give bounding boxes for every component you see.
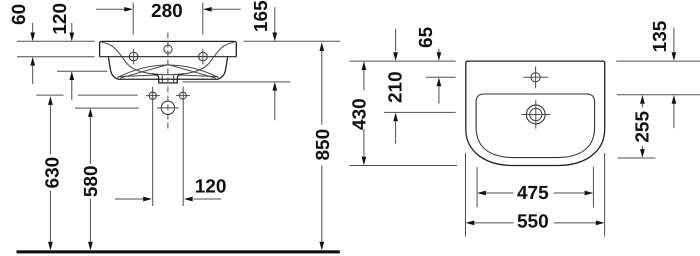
svg-text:165: 165 — [251, 0, 272, 32]
centerline dashed — [167, 33, 169, 131]
svg-text:210: 210 — [386, 71, 407, 103]
svg-text:120: 120 — [50, 3, 71, 35]
plan inner bowl outline — [476, 94, 594, 158]
washbasin body outline — [108, 57, 227, 80]
svg-text:135: 135 — [650, 20, 671, 52]
extension line rim-top right (y=41.3) — [244, 40, 341, 42]
left fixing hole — [149, 92, 156, 99]
dimension 475 (inner bowl width) — [477, 167, 593, 207]
dimension 135 (back edge to inner bowl) — [672, 28, 677, 129]
plan extension line inner-top right (y=94.8) — [617, 94, 700, 96]
svg-text:630: 630 — [42, 157, 63, 189]
bowl far-rim hill curve — [117, 65, 218, 78]
bowl floor line right — [177, 75, 218, 77]
svg-text:430: 430 — [349, 98, 370, 130]
dimension 210 (back edge to drain) — [393, 29, 398, 144]
plan extension line top-left (y=61.1) — [350, 60, 456, 62]
dimension 255 (inner bowl depth) — [640, 95, 645, 158]
extension line siphon level (y=108.1) — [75, 107, 139, 109]
dimension 60 (rim band height) — [30, 23, 35, 84]
plan drain — [526, 105, 545, 124]
svg-text:550: 550 — [517, 211, 549, 232]
dimension 580 (floor to siphon) — [88, 108, 93, 250]
plan tap hole — [531, 73, 540, 82]
siphon hole — [161, 101, 174, 114]
svg-text:580: 580 — [81, 165, 102, 197]
plan extension line bottom (y=165.5) — [350, 165, 458, 167]
center tap hole — [164, 45, 172, 53]
dimension 850 (floor to rim) — [319, 42, 324, 250]
svg-text:280: 280 — [151, 1, 183, 22]
drain stub inner walls — [162, 75, 173, 83]
bowl slope line left — [120, 65, 168, 79]
dimension 280 (tap hole distance) — [96, 3, 241, 35]
plan extension line drain level (y=112.4) — [384, 111, 456, 113]
extension line basin-bottom right (y=81.9) — [182, 81, 290, 83]
plan extension line top-right (y=61.1) — [616, 60, 700, 62]
washbasin deck front edge — [100, 56, 237, 58]
svg-text:120: 120 — [195, 176, 227, 197]
plan extension line tap level (y=77.3) — [426, 76, 456, 78]
right tap hole — [199, 52, 208, 61]
svg-text:475: 475 — [517, 183, 549, 204]
extension line deck level y=71.3 — [57, 70, 107, 72]
svg-text:65: 65 — [416, 26, 437, 48]
inner bowl rim curve — [102, 43, 234, 75]
extension line rim-bottom left (y=56.7) — [17, 56, 95, 58]
right fixing hole — [179, 92, 186, 99]
washbasin rim outline — [100, 41, 237, 56]
dimension 65 (back edge to tap) — [437, 49, 442, 104]
dimension 120 vertical (rim to deck) — [69, 23, 74, 100]
dimension 430 (plan depth) — [362, 61, 367, 165]
left tap hole — [129, 52, 138, 61]
extension line rim-top left (y=41.3) — [17, 40, 95, 42]
floor line — [17, 250, 340, 253]
dimension 120 horizontal (fixing hole spacing) — [115, 87, 221, 206]
plan outer outline — [466, 61, 605, 165]
dimension 630 (floor to fixing holes) — [48, 96, 53, 250]
svg-text:255: 255 — [632, 111, 653, 143]
bowl floor line left — [118, 75, 159, 77]
dimension 550 (plan width) — [466, 153, 605, 237]
dimension 165 (rim to basin bottom) — [272, 7, 277, 120]
plan extension line inner-bottom right (y=158) — [618, 157, 656, 159]
svg-text:60: 60 — [9, 4, 30, 25]
drain stub outer — [153, 74, 184, 83]
bowl slope line right — [168, 65, 216, 79]
svg-text:850: 850 — [313, 129, 334, 161]
extension line fixing holes level (y=95.1) — [36, 94, 63, 96]
